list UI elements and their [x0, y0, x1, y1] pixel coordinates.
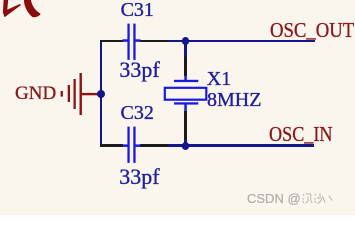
wire: top, black segment left of C31: [100, 40, 123, 43]
junction: bottom node: [182, 142, 190, 150]
wire: bottom, black segment left of C32: [100, 144, 123, 147]
value 8MHZ: [207, 90, 261, 110]
label GND: [15, 84, 56, 103]
wire: top, black segment right of C31: [140, 40, 168, 43]
wire: crystal branch lower (black then navy): [184, 111, 187, 140]
label X1: [207, 69, 231, 89]
capacitor C31: [118, 23, 146, 61]
label C32: [121, 103, 154, 123]
value 33pf (C31): [119, 59, 159, 81]
junction: top node: [182, 37, 190, 45]
crystal X1: [163, 74, 209, 112]
net label OSC_OUT: [270, 20, 354, 41]
value 33pf (C32): [119, 166, 159, 188]
watermark CSDN: [247, 192, 301, 205]
capacitor C32: [118, 126, 146, 164]
wire: crystal branch upper (navy then black): [184, 41, 187, 57]
label C31: [121, 0, 154, 20]
decorative partial red character (top-left, cut off): [0, 0, 45, 22]
wire: GND stub junction node: [97, 90, 105, 98]
wire: bottom navy segment to OSC_IN: [168, 144, 314, 147]
wire: bottom, black segment right of C32: [140, 144, 168, 147]
net label OSC_IN: [269, 124, 333, 145]
ground: [58, 71, 103, 117]
wire: left vertical: [100, 40, 102, 147]
wire: top navy segment to OSC_OUT: [168, 40, 315, 43]
